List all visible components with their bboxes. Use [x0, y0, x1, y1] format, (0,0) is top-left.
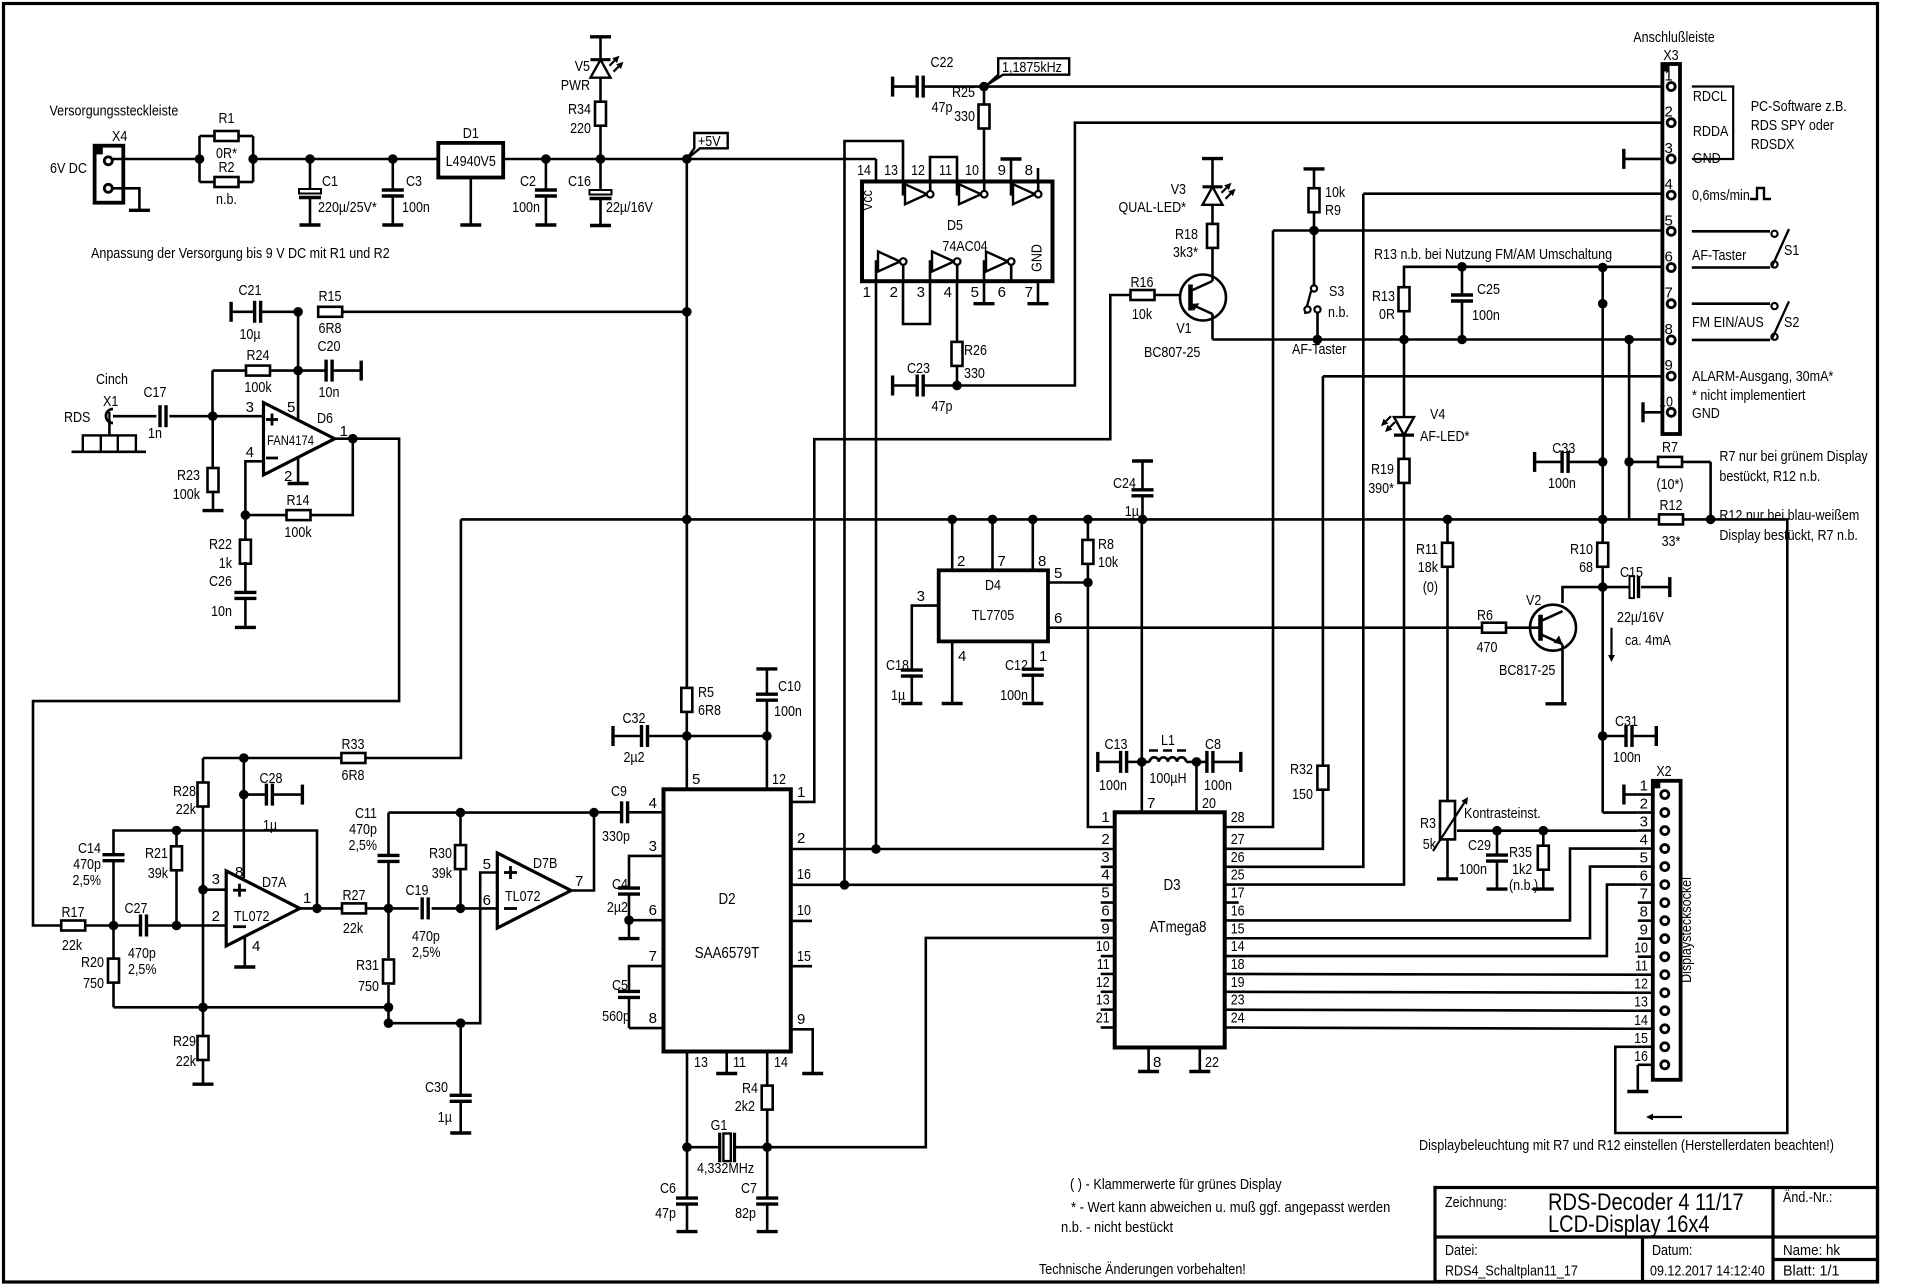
- wire +5V to R33 R28: [365, 519, 461, 758]
- wire D7A pin8: [243, 795, 246, 878]
- node L1 C8: [1192, 757, 1202, 767]
- svg-text:13: 13: [884, 162, 898, 179]
- resistor R10: [1570, 519, 1608, 587]
- supply bar V3: [1202, 157, 1223, 160]
- wire D3 pin22 gnd: [1189, 1048, 1219, 1072]
- svg-text:330: 330: [954, 108, 975, 125]
- wire R13 top: [1404, 267, 1662, 288]
- wire R8 to D3 pin1: [1088, 583, 1115, 828]
- svg-text:R27: R27: [343, 887, 366, 904]
- svg-text:RDSDX: RDSDX: [1751, 136, 1795, 153]
- wire R7 right down: [1709, 462, 1712, 520]
- wire nodeB to pin2: [177, 924, 227, 927]
- wire D1 gnd: [469, 178, 472, 226]
- wire D3.18 to X2.11: [1225, 973, 1638, 976]
- resistor R23: [173, 467, 219, 511]
- svg-text:R20: R20: [81, 954, 104, 971]
- svg-text:R16: R16: [1131, 274, 1154, 291]
- feedback wire 2nd stage: [389, 811, 595, 814]
- flag 1,1875kHz: [987, 58, 1069, 85]
- connector X2: [1634, 778, 1681, 1080]
- gnd bar C21: [229, 302, 232, 322]
- capacitor C6: [655, 1147, 698, 1231]
- wire X4 pin2 to ground: [113, 188, 139, 210]
- svg-text:8: 8: [649, 1010, 657, 1027]
- wire V1 collector to R18: [1211, 247, 1214, 281]
- svg-text:22k: 22k: [343, 920, 364, 937]
- wire D4 pin3 C18: [912, 588, 939, 670]
- svg-text:2: 2: [212, 908, 220, 925]
- svg-text:47p: 47p: [932, 398, 953, 415]
- capacitor C27: [114, 900, 177, 978]
- label PC-Software: [1751, 98, 1847, 153]
- svg-text:R23: R23: [177, 467, 200, 484]
- svg-text:100n: 100n: [1613, 749, 1641, 766]
- svg-text:1: 1: [1101, 809, 1109, 826]
- svg-text:D5: D5: [947, 217, 963, 234]
- svg-text:TL7705: TL7705: [972, 607, 1015, 624]
- tie bar pin9: [1001, 159, 1022, 182]
- title block: [1435, 1188, 1878, 1282]
- svg-text:0R: 0R: [1379, 306, 1395, 323]
- svg-text:Vcc: Vcc: [859, 190, 876, 211]
- svg-text:15: 15: [1634, 1030, 1648, 1047]
- svg-text:16: 16: [1231, 902, 1245, 919]
- svg-text:C19: C19: [406, 882, 429, 899]
- svg-text:5: 5: [1054, 565, 1062, 582]
- svg-text:24: 24: [1231, 1010, 1245, 1027]
- note stern: [1071, 1199, 1390, 1216]
- crystal G1: [687, 1117, 767, 1177]
- svg-text:Zeichnung:: Zeichnung:: [1445, 1194, 1507, 1211]
- svg-text:100n: 100n: [1548, 475, 1576, 492]
- label RDCL: [1693, 88, 1727, 105]
- capacitor C19: [406, 882, 498, 961]
- svg-text:22k: 22k: [176, 1053, 197, 1070]
- svg-text:R4: R4: [742, 1080, 758, 1097]
- svg-text:R2: R2: [219, 159, 235, 176]
- wire D3.24 to X2.14: [1225, 1028, 1638, 1029]
- wire X1 to C17: [113, 415, 156, 418]
- svg-text:C22: C22: [931, 54, 954, 71]
- node R8 pin5: [1083, 578, 1093, 588]
- svg-text:C21: C21: [239, 282, 262, 299]
- svg-text:8: 8: [1153, 1054, 1161, 1071]
- svg-text:74AC04: 74AC04: [942, 238, 987, 255]
- svg-text:470: 470: [1477, 639, 1498, 656]
- svg-text:14: 14: [1231, 938, 1245, 955]
- node C33: [1598, 457, 1608, 467]
- capacitor C31: [1603, 713, 1657, 766]
- svg-text:10: 10: [1096, 938, 1110, 955]
- capacitor C15: [1603, 564, 1670, 626]
- svg-text:2,5%: 2,5%: [128, 961, 157, 978]
- svg-text:C29: C29: [1468, 837, 1491, 854]
- svg-text:8: 8: [1640, 904, 1648, 921]
- resistor R27: [342, 887, 366, 937]
- wire D6 pin2 gnd: [297, 457, 300, 483]
- ground C4: [619, 920, 640, 938]
- svg-text:1µ: 1µ: [438, 1109, 452, 1126]
- D3 right pin stubs: [1225, 809, 1245, 1027]
- svg-text:10: 10: [797, 902, 811, 919]
- wire C28 branch: [243, 758, 246, 795]
- svg-text:82p: 82p: [735, 1205, 756, 1222]
- resistor R29: [173, 1007, 209, 1084]
- node R35: [1539, 826, 1549, 836]
- label 0,6ms/min: [1692, 187, 1750, 204]
- svg-text:L1: L1: [1161, 732, 1175, 749]
- supply bar V5: [590, 35, 611, 38]
- capacitor C9: [594, 783, 664, 845]
- D5 pin numbers top: [857, 162, 1033, 179]
- node R30 top: [456, 808, 466, 818]
- resistor R18: [1173, 224, 1218, 261]
- svg-text:R26: R26: [964, 342, 987, 359]
- wire D4 pin8: [1033, 519, 1047, 570]
- svg-text:R3: R3: [1420, 815, 1436, 832]
- svg-text:22: 22: [1205, 1054, 1219, 1071]
- svg-text:16: 16: [1634, 1048, 1648, 1065]
- wire V4 to R19: [1403, 435, 1406, 459]
- svg-text:C14: C14: [78, 840, 101, 857]
- capacitor C20: [298, 338, 361, 401]
- capacitor C2: [512, 159, 557, 225]
- svg-text:6: 6: [1054, 610, 1062, 627]
- svg-text:(0): (0): [1423, 579, 1438, 596]
- svg-text:2,5%: 2,5%: [412, 944, 441, 961]
- svg-text:R11: R11: [1416, 541, 1438, 558]
- svg-text:Technische Änderungen vorbehal: Technische Änderungen vorbehalten!: [1039, 1261, 1246, 1278]
- capacitor C10: [756, 669, 802, 736]
- svg-text:5: 5: [1101, 885, 1109, 902]
- wire R4 to crystal node: [766, 1109, 769, 1148]
- resistor R5: [681, 684, 721, 719]
- svg-text:1,1875kHz: 1,1875kHz: [1002, 59, 1062, 76]
- feedback wire top: [114, 831, 318, 909]
- svg-text:Name: hk: Name: hk: [1783, 1242, 1841, 1259]
- svg-text:GND: GND: [1692, 405, 1720, 422]
- svg-text:ATmega8: ATmega8: [1150, 919, 1207, 936]
- svg-text:5: 5: [971, 284, 979, 301]
- svg-text:10n: 10n: [319, 384, 340, 401]
- inverter gate 5 (3-4): [930, 252, 961, 282]
- capacitor C30: [425, 1023, 472, 1133]
- wire D2 pin11 gnd: [716, 1052, 746, 1074]
- svg-text:2: 2: [1101, 831, 1109, 848]
- gnd bar C22: [891, 77, 894, 97]
- transistor V2 BC817-25: [1499, 592, 1576, 679]
- X1 shield: [72, 420, 147, 452]
- svg-text:33*: 33*: [1662, 533, 1681, 550]
- svg-text:(n.b.): (n.b.): [1509, 877, 1538, 894]
- svg-text:8: 8: [1038, 553, 1046, 570]
- svg-text:R24: R24: [247, 347, 270, 364]
- svg-text:S1: S1: [1784, 242, 1799, 259]
- resistor R9: [1309, 169, 1346, 231]
- wire R24 row: [213, 369, 299, 372]
- wire R24 down to C17 node: [211, 371, 214, 417]
- svg-text:C20: C20: [318, 338, 341, 355]
- svg-text:10: 10: [965, 162, 979, 179]
- svg-text:Kontrasteinst.: Kontrasteinst.: [1464, 805, 1541, 822]
- svg-text:3: 3: [649, 838, 657, 855]
- note R12 blau: [1719, 507, 1859, 544]
- svg-text:6: 6: [1640, 868, 1648, 885]
- svg-text:Änd.-Nr.:: Änd.-Nr.:: [1783, 1189, 1832, 1206]
- svg-text:470p: 470p: [73, 856, 101, 873]
- wire R27 to C19: [366, 907, 419, 910]
- svg-text:4: 4: [1665, 176, 1673, 193]
- wire G1 to D3 pin9: [767, 938, 1114, 1147]
- stub D2 pin15: [791, 948, 812, 966]
- note anpassung: [91, 245, 390, 262]
- svg-text:9: 9: [797, 1011, 805, 1028]
- svg-text:4: 4: [944, 284, 952, 301]
- wire contrast to X2 pin3: [1457, 829, 1638, 832]
- node C30 tap: [456, 1018, 466, 1028]
- wire R32 to D3 pin27: [1225, 790, 1323, 849]
- capacitor C22: [893, 54, 984, 116]
- gnd bar C8: [1239, 752, 1242, 772]
- connector X4: [95, 128, 128, 203]
- wire D4 pin1 C12: [1033, 641, 1048, 669]
- svg-text:68: 68: [1579, 559, 1593, 576]
- svg-text:10: 10: [1634, 940, 1648, 957]
- svg-text:100n: 100n: [774, 703, 802, 720]
- connector X1: [64, 393, 118, 426]
- wire 1.1875kHz to X3 pin1: [984, 85, 1662, 88]
- svg-text:Display bestückt, R7 n.b.: Display bestückt, R7 n.b.: [1719, 527, 1858, 544]
- node C13 L1: [1137, 757, 1147, 767]
- inductor L1: [1142, 732, 1197, 787]
- svg-text:15: 15: [797, 948, 811, 965]
- inverter gate 6 (5-6): [984, 252, 1015, 282]
- switch S1: [1692, 229, 1800, 268]
- svg-text:6: 6: [483, 892, 491, 909]
- svg-text:470p: 470p: [412, 928, 440, 945]
- node R9 bottom: [1309, 226, 1319, 236]
- capacitor C17: [144, 384, 264, 442]
- wire pin6 pin7 down: [1601, 268, 1604, 520]
- gnd bar C31: [1655, 726, 1658, 746]
- capacitor C1: [299, 159, 377, 225]
- capacitor C29: [1459, 831, 1508, 889]
- svg-text:ALARM-Ausgang, 30mA*: ALARM-Ausgang, 30mA*: [1692, 368, 1833, 385]
- svg-text:R19: R19: [1371, 461, 1394, 478]
- svg-text:R34: R34: [568, 101, 591, 118]
- node R31 rail: [384, 1003, 394, 1013]
- node C29: [1492, 826, 1502, 836]
- op-amp D6: [246, 399, 348, 485]
- wire R19 down to D3 pin25: [1225, 483, 1404, 885]
- svg-text:PC-Software z.B.: PC-Software z.B.: [1751, 98, 1847, 115]
- gnd bar C20: [360, 361, 363, 381]
- node G1 right: [762, 1142, 772, 1152]
- svg-text:RDS: RDS: [64, 409, 90, 426]
- svg-text:220µ/25V*: 220µ/25V*: [318, 199, 377, 216]
- svg-text:R1: R1: [219, 110, 235, 127]
- wire X3 pin10 gnd: [1643, 402, 1662, 422]
- svg-text:100n: 100n: [512, 199, 540, 216]
- svg-text:RDDA: RDDA: [1693, 123, 1729, 140]
- resistor R17: [61, 904, 85, 954]
- bracket PC software: [1692, 87, 1733, 160]
- ground C7: [757, 1230, 778, 1233]
- svg-text:7: 7: [1025, 284, 1033, 301]
- capacitor C28: [244, 770, 303, 834]
- svg-text:5: 5: [1640, 850, 1648, 867]
- resistor R13: [1372, 287, 1410, 323]
- wire D4 pin5: [1048, 565, 1088, 583]
- svg-text:R21: R21: [145, 845, 168, 862]
- node X3 pin7 corner: [1598, 299, 1608, 309]
- ground C26: [235, 626, 256, 629]
- svg-text:C17: C17: [144, 384, 167, 401]
- node R14 left: [241, 510, 251, 520]
- node R13 bottom: [1399, 335, 1409, 345]
- node D7A output: [312, 904, 322, 914]
- ground C6: [677, 1230, 698, 1233]
- svg-text:9: 9: [998, 162, 1006, 179]
- wire pin1 down: [875, 281, 878, 849]
- svg-text:10k: 10k: [1132, 306, 1153, 323]
- svg-text:6R8: 6R8: [698, 702, 721, 719]
- op-amp D7B: [483, 853, 584, 928]
- svg-text:V4: V4: [1430, 406, 1445, 423]
- capacitor C23: [893, 360, 957, 415]
- svg-text:V2: V2: [1526, 592, 1541, 609]
- svg-text:15: 15: [1231, 920, 1245, 937]
- vertical C11 R31: [387, 813, 390, 1024]
- current arrow ca 4mA: [1608, 628, 1671, 662]
- svg-text:C1: C1: [322, 173, 338, 190]
- svg-text:47p: 47p: [655, 1205, 676, 1222]
- bottom rail filter: [114, 1006, 390, 1009]
- inverter gate 3 (9-8): [1011, 182, 1041, 205]
- svg-text:13: 13: [1634, 994, 1648, 1011]
- svg-text:10k: 10k: [1325, 184, 1346, 201]
- svg-text:1: 1: [863, 284, 871, 301]
- gnd bar C13: [1096, 752, 1099, 772]
- svg-text:14: 14: [1634, 1012, 1648, 1029]
- svg-text:R33: R33: [342, 736, 365, 753]
- svg-text:1n: 1n: [148, 425, 162, 442]
- node rail pin7: [988, 515, 998, 525]
- svg-text:R13 n.b. bei Nutzung FM/AM Ums: R13 n.b. bei Nutzung FM/AM Umschaltung: [1374, 246, 1612, 263]
- svg-text:3: 3: [1665, 140, 1673, 157]
- wire +5V rail: [461, 518, 1711, 521]
- resistor R15: [318, 288, 342, 337]
- wire D3 pin7 top: [1142, 762, 1156, 812]
- capacitor C4: [607, 876, 640, 920]
- svg-text:11: 11: [1097, 956, 1110, 973]
- node C25 bottom: [1457, 335, 1467, 345]
- resistor R1: [215, 110, 239, 162]
- wire D2 pin7 C5: [629, 948, 664, 991]
- svg-text:C24: C24: [1113, 475, 1136, 492]
- node pin16 74AC04pin13: [840, 880, 850, 890]
- svg-text:V5: V5: [575, 58, 590, 75]
- svg-text:n.b.: n.b.: [1328, 304, 1349, 321]
- resistor R14: [245, 439, 352, 541]
- svg-text:C15: C15: [1620, 564, 1643, 581]
- capacitor C33: [1535, 440, 1603, 492]
- svg-text:n.b.: n.b.: [216, 191, 237, 208]
- svg-text:18k: 18k: [1418, 559, 1439, 576]
- svg-text:D1: D1: [463, 125, 479, 142]
- wire D3 pin20 top: [1197, 762, 1216, 812]
- label displaystecksockel: [1678, 877, 1695, 983]
- node rail backlight: [1706, 515, 1716, 525]
- svg-text:QUAL-LED*: QUAL-LED*: [1119, 199, 1187, 216]
- svg-text:TL072: TL072: [505, 888, 541, 905]
- svg-text:X4: X4: [112, 128, 127, 145]
- svg-text:9: 9: [1640, 922, 1648, 939]
- svg-text:6: 6: [1101, 902, 1109, 919]
- inverter gate 4 (1-2): [876, 252, 907, 282]
- wire R28 top: [202, 758, 205, 783]
- node R7 left: [1624, 457, 1634, 467]
- svg-text:C32: C32: [623, 710, 646, 727]
- wire D3.14 to X2.6: [1225, 885, 1638, 957]
- resistor R7: [1629, 439, 1711, 493]
- capacitor C7: [735, 1147, 778, 1231]
- wire R5 to pin5: [687, 713, 701, 790]
- svg-text:C18: C18: [886, 657, 909, 674]
- svg-text:C25: C25: [1477, 281, 1500, 298]
- svg-text:Anpassung der Versorgung bis 9: Anpassung der Versorgung bis 9 V DC mit …: [91, 245, 390, 262]
- resistor R28: [173, 783, 209, 819]
- ground C29: [1487, 887, 1508, 890]
- svg-text:S3: S3: [1329, 283, 1344, 300]
- svg-text:C13: C13: [1105, 736, 1128, 753]
- svg-text:25: 25: [1231, 867, 1245, 884]
- LED V3 QUAL: [1119, 159, 1236, 226]
- svg-text:8: 8: [1665, 321, 1673, 338]
- resistor R11: [1416, 541, 1453, 596]
- svg-text:GND: GND: [1693, 150, 1721, 167]
- wire backlight loop: [1615, 519, 1787, 1133]
- svg-text:12: 12: [772, 771, 786, 788]
- wire C21node down: [297, 312, 300, 371]
- svg-text:10n: 10n: [211, 603, 232, 620]
- node R1R2 left: [195, 154, 205, 164]
- svg-text:100k: 100k: [244, 379, 272, 396]
- wire R13 bottom: [1403, 311, 1406, 340]
- svg-text:16: 16: [797, 866, 811, 883]
- svg-text:C4: C4: [612, 876, 628, 893]
- svg-text:1: 1: [1640, 778, 1648, 795]
- capacitor C3: [382, 159, 430, 225]
- node rail R8: [1083, 515, 1093, 525]
- capacitor C12: [1000, 657, 1044, 704]
- wire D3.23 to X2.13: [1225, 1010, 1638, 1011]
- svg-text:R12 nur bei blau-weißem: R12 nur bei blau-weißem: [1719, 507, 1859, 524]
- svg-text:RDS4_Schaltplan11_17: RDS4_Schaltplan11_17: [1445, 1263, 1578, 1280]
- svg-text:Versorgungssteckleiste: Versorgungssteckleiste: [50, 103, 179, 120]
- node C28 tap: [239, 753, 249, 763]
- svg-text:R31: R31: [356, 957, 379, 974]
- svg-text:1k2: 1k2: [1512, 861, 1532, 878]
- svg-text:6R8: 6R8: [319, 320, 342, 337]
- svg-text:L4940V5: L4940V5: [446, 153, 496, 170]
- svg-text:2: 2: [797, 830, 805, 847]
- svg-text:C2: C2: [520, 173, 536, 190]
- svg-text:26: 26: [1231, 849, 1245, 866]
- svg-text:100n: 100n: [1204, 777, 1232, 794]
- wire D2 pin3 C4: [629, 838, 664, 888]
